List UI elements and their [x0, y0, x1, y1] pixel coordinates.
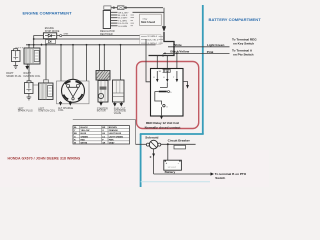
wire relay feed S-path [149, 32, 175, 56]
svg-text:Y 4-GRN: Y 4-GRN [118, 20, 127, 22]
svg-text:SPARK PLUG: SPARK PLUG [6, 75, 21, 78]
diode lower element [46, 40, 56, 44]
wire to relay pin 30 [166, 56, 168, 72]
svg-text:GR: GR [102, 142, 106, 144]
arrow on solenoid down wire [152, 154, 155, 158]
wire solenoid down [153, 149, 155, 174]
relay enclosure (red rounded box) [137, 62, 199, 129]
regulator pin wire 1 [111, 11, 118, 13]
wire from regulator row 1 to drop [133, 8, 165, 27]
arrow down on drop wire [162, 26, 166, 32]
svg-text:VALVE: VALVE [114, 112, 122, 115]
junction to battery positive [167, 143, 169, 145]
starter solenoid (hatched) [96, 71, 110, 81]
connector circle 1 [113, 7, 115, 9]
not-used label box [140, 14, 162, 25]
wire diode output [57, 36, 144, 39]
connector circle 2 [125, 7, 127, 9]
svg-text:GREEN: GREEN [81, 136, 89, 138]
svg-text:ENGINE COMPARTMENT: ENGINE COMPARTMENT [23, 10, 73, 15]
connector circle diode out [60, 35, 62, 37]
wire bus B (White) [26, 44, 156, 46]
ground right plug [13, 62, 18, 69]
wire relay bottom lead [161, 107, 163, 116]
circuit breaker CB1 [174, 145, 186, 149]
wire drop to flywheel frame right [86, 45, 88, 81]
relay pin arrows [156, 71, 158, 79]
svg-text:HONDA GX670 / JOHN DEERE 318 W: HONDA GX670 / JOHN DEERE 318 WIRING [8, 157, 81, 161]
wire bus A [34, 38, 146, 40]
svg-text:BLK-YEL 4: BLK-YEL 4 [148, 40, 160, 42]
engine stop diode D1 [43, 33, 56, 39]
wire link plug to coil [33, 84, 39, 86]
wire coil pin2 drop [28, 45, 30, 48]
wire Black/Yellow [163, 52, 230, 54]
relay feed labels box [140, 35, 161, 45]
svg-text:WHITE: WHITE [81, 142, 88, 144]
flywheel alternator [62, 79, 85, 102]
svg-text:Black/Yellow: Black/Yellow [170, 50, 189, 54]
ground left plug [27, 94, 32, 100]
svg-text:BATTERY COMPARTMENT: BATTERY COMPARTMENT [209, 17, 262, 22]
ignition coil left T2 [44, 80, 49, 83]
svg-text:ORANGE: ORANGE [109, 129, 119, 132]
svg-text:BROWN: BROWN [109, 127, 118, 129]
compartment divider (teal) [202, 5, 204, 134]
junction B dots [28, 44, 30, 46]
spark plug left [25, 83, 34, 94]
wire down to battery + [167, 144, 169, 160]
svg-text:BU: BU [74, 133, 78, 135]
wire diode left [34, 36, 44, 48]
svg-text:IGNITION COIL: IGNITION COIL [38, 110, 56, 113]
svg-text:GRN: GRN [63, 34, 68, 36]
wire battery negative run to PTO [154, 173, 211, 175]
arrow to PTO switch [211, 172, 215, 175]
wire drop to flywheel right [72, 45, 74, 81]
svg-text:BR: BR [102, 127, 106, 129]
wire solenoid to breaker [161, 143, 196, 145]
svg-text:GR 4-GRY: GR 4-GRY [118, 12, 129, 14]
relay bottom terminal 3 [163, 105, 165, 107]
svg-text:IGNITION COIL: IGNITION COIL [24, 75, 42, 78]
svg-text:Not Used: Not Used [141, 20, 155, 24]
legend container box [73, 120, 136, 145]
battery compartment box top edge (teal) [140, 133, 204, 135]
svg-text:Normally closed contact: Normally closed contact [145, 125, 181, 129]
wire to relay pin 86 [176, 53, 178, 71]
wire to relay pin 85 [156, 56, 158, 72]
battery compartment box bottom edge (faint teal) [141, 181, 210, 183]
starter solenoid relay (circle) [149, 140, 158, 149]
starter motor M1 [98, 81, 108, 103]
wire drop to flywheel left [60, 45, 62, 81]
svg-text:Pink: Pink [207, 50, 214, 54]
wire drop to starter 2 [103, 45, 105, 71]
svg-text:GRAY: GRAY [109, 141, 115, 144]
regulator pin wire 5 [111, 22, 118, 24]
relay coil comb [163, 69, 171, 72]
relay internal contact [159, 91, 167, 93]
junction S1 [162, 55, 164, 57]
wire connector to solenoid [136, 143, 147, 145]
svg-text:YELLOW: YELLOW [81, 130, 90, 132]
svg-text:W GRN-4: W GRN-4 [148, 36, 158, 38]
svg-text:LIGHT GREEN: LIGHT GREEN [109, 136, 124, 138]
fuse F1 on top lead [118, 6, 125, 10]
wire diode bottom drop [41, 44, 43, 45]
wire White run [168, 46, 230, 48]
wire relay left stub [146, 39, 151, 82]
plus mark near wire [150, 156, 152, 158]
svg-text:Light Green: Light Green [207, 43, 224, 47]
wire top charge lead [111, 7, 163, 9]
svg-text:12 VOLT: 12 VOLT [168, 167, 177, 169]
wire legend table [73, 126, 130, 144]
regulator pin wire 2 [111, 14, 118, 16]
svg-text:G 4-GRN: G 4-GRN [118, 26, 128, 28]
battery BT1 [164, 160, 182, 170]
ignition coil right T1 [24, 48, 40, 64]
svg-text:LB: LB [102, 133, 105, 135]
svg-text:-: - [178, 161, 179, 165]
svg-text:RED Relay 12 Volt Coil: RED Relay 12 Volt Coil [146, 121, 179, 125]
spark plug right [12, 51, 21, 62]
svg-text:MOTOR: MOTOR [97, 110, 106, 113]
starter terminal arrows [100, 102, 103, 105]
svg-text:on Key Switch: on Key Switch [233, 41, 254, 45]
svg-text:LIGHT BLUE: LIGHT BLUE [109, 133, 122, 135]
svg-text:BL 4-BLK: BL 4-BLK [118, 15, 128, 17]
relay U2 body [151, 69, 184, 117]
junction A1 [33, 38, 35, 40]
svg-text:COIL: COIL [58, 109, 64, 112]
svg-text:Battery: Battery [165, 170, 176, 174]
junction A2 [143, 38, 145, 40]
regulator pin wire 3 [111, 17, 118, 19]
regulator rectifier U1 [103, 11, 110, 29]
wire plug link right (dashed) [16, 48, 30, 52]
svg-text:SPARK PLUG: SPARK PLUG [18, 110, 33, 113]
svg-text:BLUE: BLUE [81, 133, 87, 135]
svg-text:W: W [74, 142, 76, 144]
svg-text:on Pto Switch: on Pto Switch [233, 52, 254, 56]
svg-text:W 4-WHT: W 4-WHT [118, 18, 128, 20]
svg-text:Circuit Breaker: Circuit Breaker [168, 138, 191, 142]
svg-text:LG: LG [102, 136, 105, 138]
flywheel bottom terminal arrows [59, 101, 71, 105]
battery compartment box left edge (teal) [140, 134, 142, 187]
svg-text:BLACK: BLACK [81, 126, 89, 129]
bottom page strip [0, 150, 269, 187]
wire drop to left coil [45, 45, 47, 81]
alternator stator triangle [68, 87, 79, 97]
relay internal wiring [155, 92, 162, 105]
fuel cut solenoid valve [113, 80, 125, 102]
regulator pin wire 4 [111, 19, 118, 21]
svg-text:Solenoid: Solenoid [145, 136, 158, 140]
junction BY [176, 53, 178, 55]
svg-text:G GRN-4: G GRN-4 [148, 43, 158, 45]
svg-text:LG 4-LGN: LG 4-LGN [118, 23, 128, 25]
wire drop to starter 1 [99, 45, 101, 71]
wire row1 coil terminal arrow [26, 64, 29, 69]
regulator pin wire 6 [111, 25, 118, 27]
connector tag on top lead [104, 6, 111, 10]
svg-text:Switch: Switch [215, 176, 225, 180]
flywheel frame [57, 81, 90, 104]
wire drop to fuel valve [120, 45, 122, 80]
fuel valve terminal arrows [114, 102, 123, 106]
regulator label tails [131, 15, 135, 26]
svg-text:STOP DIODE: STOP DIODE [45, 30, 60, 33]
wire drop to left plug [28, 64, 30, 81]
wire relay right stub with arrow [183, 82, 188, 86]
svg-text:RED: RED [81, 139, 86, 141]
svg-text:PINK: PINK [109, 139, 114, 141]
